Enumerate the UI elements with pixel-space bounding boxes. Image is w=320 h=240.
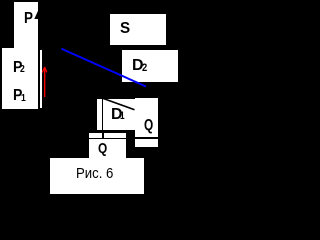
blue ray from P card to D2 card xyxy=(62,49,147,87)
overlay SVG: lines and arrows xyxy=(0,0,180,196)
label D2 xyxy=(132,58,144,74)
box Q center xyxy=(89,139,126,158)
band above Q center box xyxy=(89,133,126,137)
black notch splitting the band xyxy=(102,133,104,138)
sliver left of D1 card xyxy=(97,99,101,130)
box S xyxy=(110,14,166,46)
label P2 xyxy=(13,60,22,76)
box P4 (top-left card) xyxy=(14,2,38,58)
label S xyxy=(120,21,130,37)
box P2/P1 (left card) xyxy=(2,48,38,109)
label Q (right card) xyxy=(144,118,153,134)
label Q (center card) xyxy=(98,141,107,156)
label P (box P4) xyxy=(24,11,33,27)
black diagonal line across D1 card xyxy=(100,97,134,109)
red arrow (image arrow), pointing up xyxy=(42,67,47,97)
label P1 xyxy=(13,88,22,104)
box caption (Рис. 6) xyxy=(50,158,144,194)
label D1 xyxy=(111,107,123,123)
clipped subscript-4 triangle in box P4 xyxy=(34,10,38,19)
white sliver right of P card xyxy=(40,50,42,109)
caption text xyxy=(76,166,113,181)
box Q right xyxy=(135,98,159,137)
box D1 xyxy=(103,99,135,131)
box D2 xyxy=(122,50,178,81)
strip under Q right box xyxy=(135,139,159,147)
